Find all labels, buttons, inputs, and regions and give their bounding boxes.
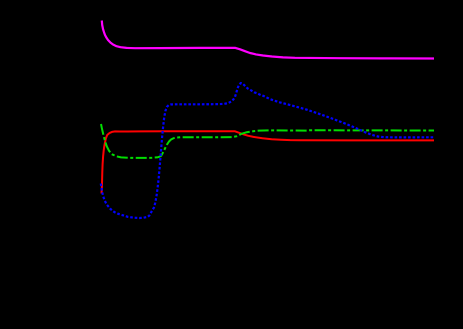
blue dotted curve xyxy=(101,83,434,218)
magenta curve xyxy=(102,21,434,59)
red curve xyxy=(102,131,435,193)
green dash-dot curve xyxy=(101,124,434,158)
